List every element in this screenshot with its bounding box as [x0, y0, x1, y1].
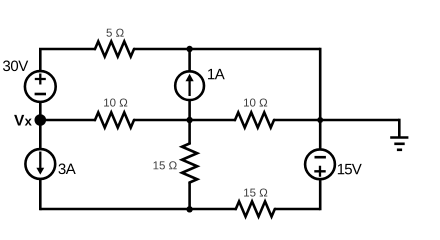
ground [390, 119, 408, 150]
label 15 ohm (vertical resistor value) [153, 161, 176, 169]
label 5 ohm (top resistor value) [106, 29, 123, 37]
resistor 15 ohm (bottom rail) [235, 201, 276, 216]
label Vx [14, 115, 32, 126]
label 15V [338, 164, 362, 174]
wire: middle branch upper (top node through 1A source to middle node) [188, 49, 191, 145]
label 3A [58, 164, 75, 175]
current source I2 3A [25, 149, 55, 179]
node: bottom middle junction dot [186, 206, 192, 212]
wire: left branch vertical (top-left corner to bottom-left corner) [40, 48, 96, 211]
wire: middle rail, node Vx to left resistor [40, 119, 96, 122]
wire: middle rail, right resistor to ground corner [274, 119, 399, 122]
label 1A [208, 69, 225, 79]
label 15 ohm (bottom resistor value) [244, 188, 267, 196]
resistor 10 ohm (middle rail right) [234, 112, 275, 127]
current source I1 1A [175, 71, 204, 100]
label 10 ohm (left middle resistor value) [104, 98, 127, 106]
wire: right branch vertical [319, 48, 322, 211]
resistor 15 ohm (middle branch vertical) [182, 143, 197, 184]
node: right middle junction dot [317, 117, 323, 123]
node Vx junction dot [35, 114, 47, 126]
label 10 ohm (right middle resistor value) [244, 98, 267, 106]
label 30V [3, 61, 28, 72]
wire: middle branch lower (resistor to bottom node) [188, 183, 191, 210]
wire: bottom rail right segment [275, 208, 320, 211]
voltage source V1 30V [25, 71, 56, 102]
resistor 5 ohm (top rail) [94, 41, 135, 56]
resistor 10 ohm (middle rail left) [94, 112, 135, 127]
voltage source V2 15V [305, 149, 335, 179]
node: middle junction dot [186, 117, 192, 123]
wire: bottom rail left segment [40, 208, 237, 211]
node: top middle junction dot [186, 46, 192, 52]
wire: top rail right segment [134, 48, 320, 51]
wire: middle rail, between the two 10 ohm resistors [134, 119, 236, 122]
